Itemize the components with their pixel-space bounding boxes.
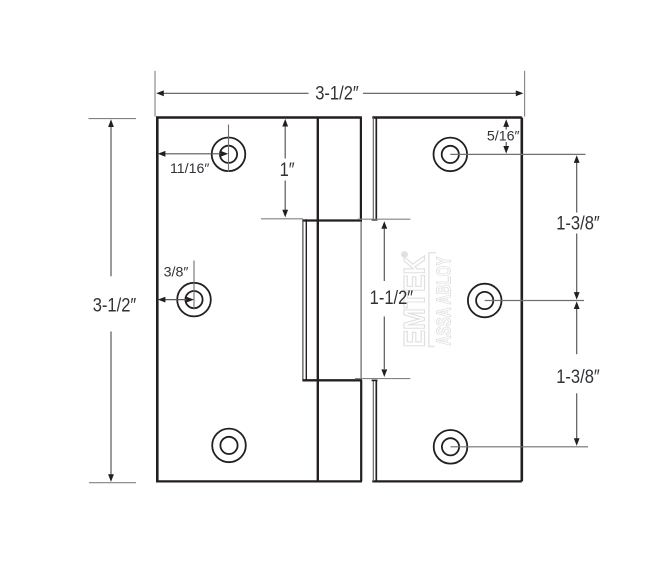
screw hole H1 centerline: [228, 125, 230, 173]
svg-text:1-1/2″: 1-1/2″: [370, 287, 414, 308]
dimension 3-1/2 top: extension lines: [155, 71, 525, 117]
dimension 3-1/2 left: arrowheads: [108, 119, 114, 482]
middle knuckle (right leaf barrel): [302, 219, 362, 380]
svg-text:5/16″: 5/16″: [487, 129, 520, 145]
screw hole H6 centerline to right: [451, 446, 589, 448]
dimension 3-1/2 left: extension ticks: [89, 119, 137, 483]
dimension 5/16: arrowheads: [503, 119, 509, 153]
dimension 3/8: shaft: [165, 299, 189, 301]
svg-text:®: ®: [401, 251, 410, 257]
svg-text:11/16″: 11/16″: [170, 161, 209, 177]
dimension 1-1/2: extension lines: [355, 219, 410, 378]
screw hole H3 bottom-left: [212, 429, 246, 463]
svg-text:3-1/2″: 3-1/2″: [315, 82, 359, 103]
left leaf plate outline: [156, 118, 362, 482]
dimension 1 inch: shaft: [284, 127, 286, 211]
svg-text:1-3/8″: 1-3/8″: [556, 212, 600, 233]
dimension 1-3/8 upper: arrowheads: [574, 155, 580, 299]
right leaf left edge (bottom band): [372, 380, 378, 481]
dimension 1-3/8 lower: shaft: [576, 309, 578, 440]
screw hole H5 mid-right: [468, 284, 502, 318]
dimension 3-1/2 top: shaft: [163, 92, 517, 94]
right leaf plate outline: [372, 118, 522, 482]
screw hole H4 centerline to right: [450, 153, 585, 155]
screw hole H4 top-right: [434, 138, 468, 172]
dimension 1-3/8 upper: shaft: [576, 163, 578, 293]
svg-text:1″: 1″: [280, 159, 295, 180]
screw hole H1 top-left: [212, 138, 246, 172]
dimension 5/16: shaft: [505, 126, 507, 147]
dimension 1 inch: extension line: [261, 218, 303, 220]
dimension 1-1/2: shaft: [383, 229, 385, 369]
dimension 3-1/2 top: arrowheads: [156, 90, 523, 96]
svg-text:1-3/8″: 1-3/8″: [556, 366, 600, 387]
screw hole H6 bottom-right: [434, 430, 468, 464]
svg-text:3-1/2″: 3-1/2″: [93, 295, 137, 316]
screw hole H2 mid-left: [177, 283, 211, 317]
dimension 3/8: arrowheads: [158, 297, 194, 303]
right leaf left edge (top band): [372, 118, 378, 220]
watermark ASSA ABLOY bracket: [429, 253, 436, 347]
dimension 1-1/2: arrowheads: [381, 221, 387, 377]
dimension 11/16: arrowheads: [158, 151, 228, 157]
screw hole H2 centerline: [193, 261, 195, 310]
dimension 1-3/8 lower: arrowheads: [574, 301, 580, 446]
dimension 3-1/2 left: shaft: [110, 127, 112, 475]
top knuckle (left leaf): [303, 118, 363, 221]
watermark EMTEK logo: [398, 251, 431, 347]
svg-text:3/8″: 3/8″: [164, 265, 189, 281]
svg-text:ASSA ABLOY: ASSA ABLOY: [434, 256, 456, 345]
screw hole H5 centerline to right: [485, 300, 584, 302]
bottom knuckle (left leaf): [360, 380, 362, 481]
dimension 11/16: shaft: [165, 153, 222, 155]
dimension 1 inch: arrowheads: [282, 119, 288, 217]
